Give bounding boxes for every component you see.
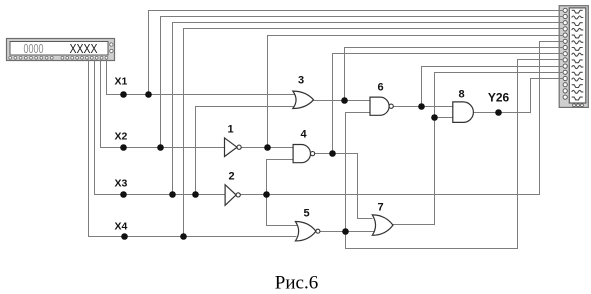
svg-text:X2: X2 xyxy=(115,131,128,143)
wire gate 5 output to gate 7 lower input xyxy=(320,231,375,233)
svg-text:4: 4 xyxy=(300,129,307,141)
wire gate 5 output path to analyzer channel 9 xyxy=(346,60,564,249)
NOR gate 5 xyxy=(295,208,320,241)
wire gate 4 output to gate 7 upper input xyxy=(333,154,373,219)
wire gate 7 output riser to analyzer channel 11 xyxy=(393,73,564,225)
wire gate 3 output to gate 6 upper input xyxy=(314,100,371,102)
wire gate 6 output to gate 8 upper input xyxy=(394,106,453,108)
wire node X4 riser to analyzer channel 4 xyxy=(184,29,564,237)
wire gate 5 output branch to gate 6 lower input xyxy=(346,113,371,232)
wire gate 2 output branch to gate 5 upper input xyxy=(267,195,299,226)
wire node X3 branch to gate 3 lower input xyxy=(196,107,297,195)
svg-text:5: 5 xyxy=(303,208,309,220)
logic analyzer XLA1 xyxy=(559,6,588,108)
wire node X3 riser to analyzer channel 3 xyxy=(173,23,564,195)
junction gate 6 output xyxy=(418,103,425,110)
wire generator pin15 to node X2 xyxy=(101,60,225,148)
wire gate 2 output to riser channel 6 xyxy=(241,42,564,195)
node X1 xyxy=(115,76,152,98)
wire gate 6 output riser to analyzer channel 10 xyxy=(422,67,564,107)
wire generator pin14 to node X3 xyxy=(95,60,226,195)
svg-text:Рис.6: Рис.6 xyxy=(275,273,318,294)
wire node X2 riser to analyzer channel 2 xyxy=(161,17,564,148)
wire gate 3 output riser to analyzer channel 7 xyxy=(345,48,564,101)
node Y26 xyxy=(488,91,510,116)
OR gate 7 xyxy=(372,202,393,236)
wire gate 2 output branch to gate 4 lower input xyxy=(267,160,294,195)
svg-text:Y26: Y26 xyxy=(488,91,510,105)
NAND gate 6 xyxy=(370,82,393,116)
inverter 2 xyxy=(225,171,240,206)
junction gate 2 output xyxy=(263,191,270,198)
wire generator pin13 to node X4 xyxy=(89,60,297,237)
svg-text:1: 1 xyxy=(227,124,233,136)
junction gate 1 output xyxy=(264,144,271,151)
svg-text:2: 2 xyxy=(228,171,234,183)
wire generator pin16 to node X1 xyxy=(107,60,297,95)
wire gate 8 output node Y26 to analyzer channel 12 xyxy=(474,79,564,113)
word generator XWG1 xyxy=(7,39,115,61)
svg-text:X1: X1 xyxy=(115,76,128,88)
junction gate 7 riser tap xyxy=(431,114,438,121)
svg-text:0000: 0000 xyxy=(24,42,44,56)
wire gate 1 output riser to analyzer channel 5 xyxy=(268,36,564,148)
svg-text:3: 3 xyxy=(298,75,304,87)
svg-text:X3: X3 xyxy=(115,178,128,190)
wire gate 4 output riser to analyzer channel 8 xyxy=(315,54,564,154)
junction gate 5 output xyxy=(342,228,349,235)
wire gate 7 riser tap to gate 8 lower input xyxy=(435,117,453,119)
svg-text:8: 8 xyxy=(458,89,464,101)
junction gate 4 output xyxy=(329,150,336,157)
OR gate 3 xyxy=(293,75,314,109)
svg-text:XXXX: XXXX xyxy=(70,42,99,56)
node X3 xyxy=(115,178,199,198)
node X4 xyxy=(115,221,187,240)
node X2 xyxy=(115,131,164,151)
NAND gate 4 xyxy=(293,129,315,163)
svg-text:X4: X4 xyxy=(115,221,128,233)
AND gate 8 xyxy=(453,89,474,123)
svg-text:6: 6 xyxy=(377,82,383,94)
wire gate 1 output to gate 4 upper input xyxy=(242,147,294,149)
svg-text:7: 7 xyxy=(377,202,383,214)
wire node X1 riser to analyzer channel 1 xyxy=(149,11,564,95)
junction gate 3 output xyxy=(341,97,348,104)
inverter 1 xyxy=(225,124,242,157)
